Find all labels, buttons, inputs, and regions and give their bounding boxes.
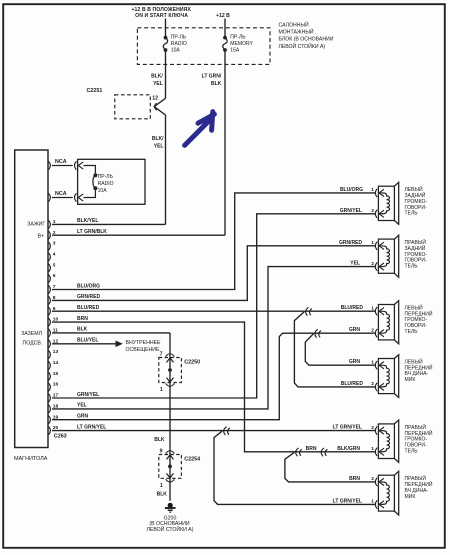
svg-text:2: 2	[53, 230, 56, 236]
right front tweeter	[371, 471, 433, 515]
radio pin 2 LT GRN/BLK	[48, 229, 107, 239]
svg-text:ПРАВЫЙ: ПРАВЫЙ	[405, 238, 427, 246]
radio NCA pin upper	[48, 159, 72, 170]
wire branch GRN to left front tweeter	[305, 334, 376, 365]
svg-text:ЛЕВОЙ СТОЙКИ А): ЛЕВОЙ СТОЙКИ А)	[279, 42, 326, 50]
svg-text:2: 2	[371, 208, 374, 214]
radio pin 17 GRN/YEL	[48, 392, 99, 402]
radio pin 7 BLU/ORG	[48, 283, 100, 293]
radio pin 8 GRN/RED	[48, 294, 100, 304]
svg-text:МАГНИТОЛА: МАГНИТОЛА	[14, 456, 48, 462]
wire branch LT GRN/YEL to right front tweeter	[214, 431, 376, 504]
svg-text:LT GRN/YEL: LT GRN/YEL	[333, 424, 362, 430]
svg-text:МИК: МИК	[405, 377, 416, 383]
svg-text:9: 9	[160, 448, 163, 454]
right rear speaker	[371, 235, 427, 277]
svg-text:2: 2	[371, 476, 374, 482]
svg-text:BLU/ORG: BLU/ORG	[340, 187, 363, 193]
svg-text:ПЕРЕДНИЙ: ПЕРЕДНИЙ	[405, 363, 433, 371]
label +12V	[216, 13, 230, 19]
svg-text:GRN: GRN	[349, 359, 361, 365]
svg-text:10А: 10А	[98, 188, 108, 194]
fuse MEMORY 15A	[223, 35, 254, 54]
svg-text:BLK/YEL: BLK/YEL	[77, 218, 98, 224]
wire pin 17 GRN/YEL to left rear speaker	[52, 208, 376, 398]
svg-text:ПР-ЛЬ: ПР-ЛЬ	[171, 35, 187, 41]
wire LT GRN/BLK fuse MEMORY down to radio pin 2	[52, 50, 225, 235]
svg-text:13: 13	[53, 349, 59, 355]
svg-text:NCA: NCA	[55, 159, 67, 165]
fuse RADIO 10A	[163, 35, 187, 54]
radio pin 1 BLK/YEL	[48, 218, 98, 228]
svg-text:ЛЕВЫЙ: ЛЕВЫЙ	[405, 185, 424, 193]
radio pin 4	[48, 252, 55, 262]
wire branch BLU/RED to left front tweeter	[294, 312, 375, 387]
svg-text:GRN: GRN	[349, 327, 361, 333]
left rear speaker	[371, 182, 427, 224]
svg-text:BLU/RED: BLU/RED	[341, 381, 364, 387]
svg-text:1: 1	[371, 305, 374, 311]
radio pin 10 BRN	[48, 316, 88, 326]
svg-text:BLK/: BLK/	[151, 73, 163, 79]
connector C2251	[87, 88, 166, 119]
svg-text:15А: 15А	[230, 48, 240, 54]
label +12V in ON and START key positions	[131, 7, 191, 19]
radio pin 9 BLU/RED	[48, 305, 99, 315]
svg-text:BLU/RED: BLU/RED	[77, 305, 100, 311]
wire pin 18 YEL to right rear speaker	[52, 261, 376, 409]
wire pin 19 GRN to left front speaker	[52, 327, 376, 420]
connector C2254	[159, 448, 200, 489]
svg-text:+12 В: +12 В	[216, 13, 230, 19]
svg-text:1: 1	[371, 446, 374, 452]
svg-text:ОСВЕЩЕНИЕ: ОСВЕЩЕНИЕ	[126, 347, 160, 353]
svg-text:3: 3	[53, 241, 56, 247]
wire branch BRN to right front tweeter	[285, 452, 376, 482]
svg-text:BLK: BLK	[211, 81, 222, 87]
svg-text:ТЕЛЬ: ТЕЛЬ	[405, 264, 419, 270]
radio NCA pin lower	[48, 191, 72, 202]
svg-text:BLK: BLK	[77, 327, 88, 333]
wire pin 11 BLK ground run	[52, 333, 170, 501]
svg-text:BLK: BLK	[157, 492, 168, 498]
svg-text:7: 7	[160, 351, 163, 357]
svg-text:2: 2	[371, 327, 374, 333]
svg-text:GRN/RED: GRN/RED	[77, 294, 100, 300]
svg-text:GRN/YEL: GRN/YEL	[77, 392, 99, 398]
wire pin 9 BLU/RED to left front speaker	[52, 305, 376, 316]
svg-text:ЛЕВЫЙ: ЛЕВЫЙ	[405, 304, 424, 312]
svg-text:ЗАЗЕМЛ: ЗАЗЕМЛ	[21, 331, 42, 337]
svg-text:6: 6	[53, 273, 56, 279]
svg-text:ПР-ЛЬ: ПР-ЛЬ	[98, 174, 114, 180]
svg-text:2: 2	[371, 381, 374, 387]
radio pin 11 BLK	[48, 327, 87, 337]
svg-text:БЛОК (В ОСНОВАНИИ: БЛОК (В ОСНОВАНИИ	[279, 37, 334, 43]
svg-text:C263: C263	[54, 433, 67, 439]
radio pin 16	[48, 382, 58, 392]
svg-text:4: 4	[53, 252, 56, 258]
svg-text:YEL: YEL	[350, 261, 360, 267]
svg-text:YEL: YEL	[154, 143, 164, 149]
svg-text:ЛЕВОЙ СТОЙКИ А): ЛЕВОЙ СТОЙКИ А)	[146, 525, 193, 533]
svg-text:ON И START КЛЮЧА: ON И START КЛЮЧА	[135, 13, 188, 19]
radio pin 20 LT GRN/YEL	[48, 424, 106, 434]
svg-text:15: 15	[53, 371, 59, 377]
svg-text:LT GRN/YEL: LT GRN/YEL	[333, 498, 362, 504]
svg-text:BRN: BRN	[306, 446, 317, 452]
svg-text:BLU/YEL: BLU/YEL	[77, 338, 98, 344]
svg-text:BRN: BRN	[77, 316, 88, 322]
radio pin 18 YEL	[48, 403, 86, 413]
svg-text:ПЕРЕДНИЙ: ПЕРЕДНИЙ	[405, 480, 433, 488]
wire pin 20 LT GRN/YEL to right front speaker	[52, 424, 376, 435]
svg-text:МИК: МИК	[405, 494, 416, 500]
svg-text:BLK/GRN: BLK/GRN	[337, 446, 360, 452]
svg-text:1: 1	[371, 499, 374, 505]
svg-text:1: 1	[371, 187, 374, 193]
svg-text:1: 1	[371, 240, 374, 246]
svg-text:RADIO: RADIO	[171, 41, 187, 47]
svg-text:1: 1	[53, 219, 56, 225]
svg-text:BLU/RED: BLU/RED	[341, 305, 364, 311]
wire BLK/YEL fuse RADIO down to connector C2251	[151, 50, 165, 98]
wire pin 7 BLU/ORG to left rear speaker	[52, 187, 376, 290]
svg-text:ПЕРЕДНИЙ: ПЕРЕДНИЙ	[405, 309, 433, 317]
svg-text:ЗАЖИГ: ЗАЖИГ	[27, 221, 45, 227]
wire pin 8 GRN/RED to right rear speaker	[52, 240, 376, 301]
svg-text:ПР-ЛЬ: ПР-ЛЬ	[230, 35, 246, 41]
svg-text:BLK: BLK	[154, 437, 165, 443]
wire pin 12 BLU/YEL to interior lighting	[52, 340, 161, 353]
svg-text:ПРАВЫЙ: ПРАВЫЙ	[405, 474, 427, 482]
svg-text:1: 1	[160, 387, 163, 393]
radio pin 12 BLU/YEL	[48, 338, 98, 348]
svg-text:12: 12	[152, 95, 158, 101]
svg-text:MEMORY: MEMORY	[230, 41, 253, 47]
svg-text:ТЕЛЬ: ТЕЛЬ	[405, 329, 419, 335]
radio pin 5	[48, 262, 55, 272]
svg-text:МОНТАЖНЫЙ: МОНТАЖНЫЙ	[279, 28, 314, 36]
svg-text:C2254: C2254	[184, 457, 200, 463]
svg-text:YEL: YEL	[153, 81, 163, 87]
label C263 radio connector	[54, 433, 67, 439]
svg-text:1: 1	[371, 359, 374, 365]
svg-text:LT GRN/BLK: LT GRN/BLK	[77, 229, 107, 235]
svg-text:5: 5	[53, 262, 56, 268]
svg-text:1: 1	[160, 483, 163, 489]
svg-text:2: 2	[371, 261, 374, 267]
right front speaker	[371, 420, 433, 462]
svg-text:В+: В+	[38, 233, 45, 239]
interior fuse box dashed outline	[137, 28, 270, 65]
label МАГНИТОЛА	[14, 456, 48, 462]
wire +12V feed to fuse MEMORY	[224, 19, 226, 37]
radio pin 19 GRN	[48, 414, 88, 424]
left front tweeter	[371, 355, 433, 398]
svg-text:10А: 10А	[171, 48, 181, 54]
svg-text:LT GRN/YEL: LT GRN/YEL	[77, 424, 106, 430]
svg-text:GRN/RED: GRN/RED	[339, 240, 362, 246]
svg-text:RADIO: RADIO	[98, 181, 114, 187]
label interior mounting block	[279, 21, 334, 50]
svg-text:GRN/YEL: GRN/YEL	[340, 208, 362, 214]
svg-text:14: 14	[53, 360, 59, 366]
svg-text:САЛОННЫЙ: САЛОННЫЙ	[279, 21, 309, 29]
svg-text:ПРАВЫЙ: ПРАВЫЙ	[405, 423, 427, 431]
svg-text:BRN: BRN	[349, 476, 360, 482]
svg-text:ЗАДНИЙ: ЗАДНИЙ	[405, 191, 426, 199]
svg-text:16: 16	[53, 382, 59, 388]
connector C2250	[159, 351, 200, 393]
radio unit box МАГНИТОЛА	[15, 150, 48, 448]
svg-text:ПОДСВ.: ПОДСВ.	[22, 341, 42, 347]
svg-text:C2251: C2251	[87, 88, 103, 94]
svg-text:ЛЕВЫЙ: ЛЕВЫЙ	[405, 358, 424, 366]
svg-text:NCA: NCA	[55, 191, 67, 197]
svg-text:YEL: YEL	[77, 403, 87, 409]
radio pin 13	[48, 349, 58, 359]
radio pin 14	[48, 360, 58, 370]
radio pin 6	[48, 273, 55, 283]
svg-text:2: 2	[371, 425, 374, 431]
wire BLK/YEL connector C2251 down to radio pin 1	[52, 115, 166, 224]
wire pin 10 BRN to right front speaker BLK/GRN	[52, 322, 376, 457]
svg-text:GRN: GRN	[77, 414, 89, 420]
radio pin 3	[48, 241, 55, 251]
svg-text:ВНУТРЕННЕЕ: ВНУТРЕННЕЕ	[126, 340, 162, 346]
svg-text:ПЕРЕДНИЙ: ПЕРЕДНИЙ	[405, 429, 433, 437]
radio pin 15	[48, 371, 58, 381]
svg-text:C2250: C2250	[184, 360, 200, 366]
svg-text:ТЕЛЬ: ТЕЛЬ	[405, 211, 419, 217]
left front speaker	[371, 301, 433, 344]
svg-text:ЗАДНИЙ: ЗАДНИЙ	[405, 244, 426, 252]
hand-drawn blue arrow annotation	[185, 112, 215, 146]
ground G200	[146, 503, 193, 533]
wire +12V feed to fuse RADIO	[165, 19, 167, 37]
svg-text:ТЕЛЬ: ТЕЛЬ	[405, 448, 419, 454]
svg-text:LT GRN/: LT GRN/	[202, 73, 222, 79]
fuse box with fuse RADIO 10A	[75, 159, 146, 204]
svg-text:BLU/ORG: BLU/ORG	[77, 283, 100, 289]
svg-text:BLK/: BLK/	[152, 136, 164, 142]
